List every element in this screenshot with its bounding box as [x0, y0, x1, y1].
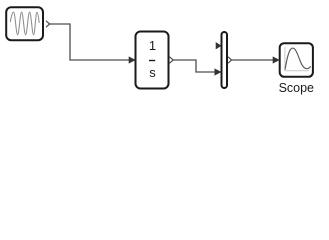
svg-text:s: s	[149, 65, 156, 80]
mux output port chevron	[228, 57, 232, 63]
wire: sine wave to integrator	[50, 24, 135, 63]
mux block	[222, 32, 228, 88]
integrator output port chevron	[170, 57, 174, 63]
wire: mux to scope	[232, 57, 279, 63]
svg-text:1: 1	[149, 38, 156, 53]
sine wave output port chevron	[46, 21, 50, 27]
sine wave source block	[6, 7, 43, 40]
integrator block U1 (1/s)	[136, 32, 169, 89]
scope block	[280, 43, 313, 77]
svg-text:Scope: Scope	[279, 81, 314, 95]
label: Scope	[279, 81, 314, 95]
wire: integrator to mux lower input	[173, 60, 221, 75]
mux unconnected upper input port arrow	[216, 43, 221, 49]
